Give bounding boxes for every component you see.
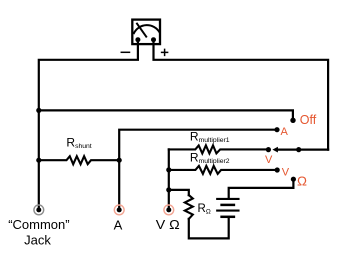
resistor R_multiplier2	[169, 166, 277, 174]
svg-text:V: V	[265, 154, 273, 166]
node: junction of R_shunt with left rail	[36, 158, 41, 163]
wire: junction down to A jack	[118, 160, 120, 208]
svg-text:“Common”: “Common”	[8, 217, 69, 232]
meter terminal - (dot)	[135, 37, 140, 42]
jack Common (center dot)	[36, 207, 41, 212]
switch contact V1 (dot)	[266, 147, 271, 152]
wire: battery positive up and right to Ohm contact	[229, 179, 294, 199]
switch wiper arrowhead	[272, 147, 278, 153]
switch contact Off (dot)	[290, 118, 295, 123]
meter + polarity label	[162, 49, 168, 55]
svg-text:Off: Off	[300, 113, 317, 127]
node: junction of R_multiplier2 with left column	[166, 167, 171, 172]
node: junction R_shunt / A-jack / A-contact	[117, 158, 122, 163]
resistor R_shunt	[39, 156, 119, 164]
svg-text:Jack: Jack	[24, 232, 51, 247]
meter terminal + (dot)	[151, 37, 156, 42]
jack A (ring)	[114, 205, 124, 215]
switch contact V2 (dot)	[275, 167, 280, 172]
wire: R_Ohm bottom to battery negative	[189, 218, 229, 239]
switch wiper pivot (dot)	[296, 147, 301, 152]
jack A (center dot)	[117, 207, 122, 212]
svg-text:V: V	[282, 167, 290, 179]
switch contact A (dot)	[274, 127, 279, 132]
svg-text:Ω: Ω	[297, 175, 307, 189]
node: junction of R_Ohm branch with left column	[166, 187, 171, 192]
node: junction on left rail for Off wire	[36, 108, 41, 113]
switch wiper arm	[277, 149, 328, 151]
jack VOhm (center dot)	[166, 207, 171, 212]
resistor R_Ohm (vertical)	[185, 195, 193, 219]
svg-text:V Ω: V Ω	[156, 217, 180, 232]
jack VOhm (ring)	[164, 205, 174, 215]
battery B1	[217, 199, 238, 217]
wire: left rail to Off contact	[39, 110, 293, 118]
meter M1	[132, 20, 160, 44]
wire: meter - terminal down, left and down left side to Common jack	[39, 40, 138, 209]
wire: junction to top of R_Ohm	[169, 190, 189, 195]
wire: meter + terminal down, right and down right side to wiper	[154, 40, 329, 150]
jack Common (ring)	[34, 205, 44, 215]
svg-text:A: A	[281, 126, 289, 138]
meter - polarity label	[121, 51, 129, 53]
resistor R_multiplier1	[169, 145, 269, 153]
svg-text:A: A	[114, 218, 123, 233]
wire: left column from R_multiplier1 down to VOhm jack	[168, 149, 170, 208]
switch contact Ohm (dot)	[291, 177, 296, 182]
wire: junction up and right to A contact	[119, 130, 277, 161]
